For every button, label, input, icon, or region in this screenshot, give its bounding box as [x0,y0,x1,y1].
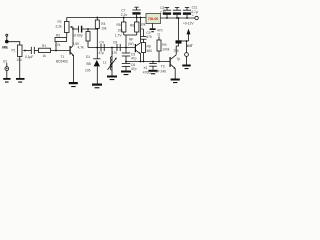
svg-text:10k: 10k [17,58,23,62]
ground [171,79,180,81]
wire P1 wiper arrow [24,50,31,52]
svg-text:2,2k: 2,2k [56,25,63,29]
svg-text:1k: 1k [140,27,144,31]
resistor R2 [55,38,67,42]
choke 10u [176,40,182,43]
svg-text:2,2n: 2,2n [121,13,128,17]
svg-text:10-60p: 10-60p [73,34,83,38]
capacitor C10 on W4 [152,61,154,63]
svg-text:L1: L1 [103,61,107,65]
wire P2 bottom to R2 [66,33,68,38]
capacitor C10b [176,17,178,19]
ground [3,78,10,80]
wire T2 emitter to W4 [140,53,142,61]
svg-text:G1: G1 [3,60,8,64]
svg-text:105: 105 [85,69,91,73]
svg-text:560: 560 [147,49,153,53]
node R3 top junction [87,28,89,30]
svg-text:100k: 100k [162,48,169,52]
wire choke to antenna [182,40,189,42]
capacitor C7 above rail [132,12,140,14]
svg-text:47p: 47p [131,57,137,61]
node G1 terminal [6,63,8,67]
resistor R6 [136,17,138,19]
svg-text:NF: NF [129,38,133,42]
svg-text:R5: R5 [117,23,121,27]
capacitor C9b after regulator [166,17,168,19]
transistor T1 [70,46,71,55]
transistor T2 [135,44,136,52]
resistor R3 4,7k [87,29,89,32]
svg-text:10k: 10k [101,27,107,31]
resistor R8 [142,43,146,53]
wire supply rail right [161,17,195,19]
node ME mic terminal [6,34,8,36]
svg-text:T1: T1 [61,55,65,59]
capacitor C11 [186,17,188,19]
ground [16,78,25,80]
svg-text:+: + [192,14,194,18]
svg-text:R2: R2 [56,34,60,38]
svg-text:47p: 47p [99,51,105,55]
wire T2 collector to rail [140,18,142,43]
capacitor C5 [122,52,130,54]
node base junction [55,50,57,52]
svg-text:C7: C7 [121,9,125,13]
wire T3 collector to choke [176,44,178,55]
capacitor C1 [30,47,32,54]
svg-text:R6: R6 [130,24,134,28]
node supply terminal [195,16,198,19]
svg-text:T3: T3 [161,65,165,69]
wire U1 ground pin [152,24,154,29]
svg-text:D1: D1 [86,55,90,59]
svg-text:ANT: ANT [186,44,193,48]
svg-text:C11: C11 [192,6,198,10]
antenna ANT [188,34,190,42]
wire 6V rail [67,17,146,19]
trimmer capacitor 10-60p [72,28,74,30]
potentiometer P1 [18,45,23,57]
varicap D1 [96,48,98,59]
svg-text:X1: X1 [144,66,148,70]
svg-text:ME: ME [2,46,8,50]
svg-text:0,1µF: 0,1µF [25,55,33,59]
svg-text:470Ω: 470Ω [143,71,151,75]
svg-text:R8: R8 [147,45,151,49]
svg-text:10µ: 10µ [173,49,179,53]
ground [121,71,131,73]
svg-text:1,7V: 1,7V [115,34,123,38]
svg-text:4,7k: 4,7k [78,46,85,50]
wire rail corner into P2 [66,18,68,22]
svg-text:C4: C4 [100,41,104,45]
svg-text:+9-12V: +9-12V [183,22,194,26]
svg-text:47p: 47p [131,67,137,71]
svg-text:R9: R9 [162,43,166,47]
svg-text:R4: R4 [101,22,105,26]
svg-text:1k: 1k [43,54,47,58]
resistor R5 [123,17,125,19]
svg-text:78L06: 78L06 [148,17,158,21]
svg-text:BB: BB [87,62,91,66]
ground [148,70,157,72]
ground [69,82,78,84]
resistor R1 [39,48,51,52]
svg-text:R1: R1 [42,44,46,48]
capacitor C8 [116,44,118,51]
svg-text:BF 246: BF 246 [156,70,167,74]
wire W4 [125,61,127,63]
svg-text:47k: 47k [55,43,61,47]
capacitor C4 [100,44,102,51]
inductor L1 [111,47,113,49]
svg-text:470: 470 [112,51,118,55]
resistor R4 [96,17,98,19]
wire R1 to T1 base [51,50,70,52]
potentiometer P2 [65,22,70,33]
svg-text:P1: P1 [12,49,16,53]
regulator U1 78L06 [146,14,161,24]
node 1,7V chain [125,47,127,49]
svg-text:C8: C8 [113,41,117,45]
svg-text:BC546C: BC546C [56,60,69,64]
capacitor C9 [143,29,145,36]
svg-text:(W): (W) [128,42,133,46]
svg-text:2,2n: 2,2n [160,10,167,14]
ground [150,28,156,30]
wire W3 coupling line [88,47,135,49]
node output terminal [186,41,188,53]
resistor R9 [158,37,160,41]
ground [107,76,117,78]
svg-text:10k: 10k [118,29,124,33]
wire wiper/collector vertical [72,27,74,46]
svg-text:7p: 7p [177,57,181,61]
svg-text:P2: P2 [58,20,62,24]
transistor T3 [170,57,171,67]
svg-text:10k: 10k [140,23,146,27]
wire T3 emitter to ground [174,68,176,78]
wire P2 wiper arrow [71,26,73,28]
capacitor C6 [122,62,130,64]
wire T1 emitter to ground [73,56,75,82]
svg-text:470: 470 [146,35,152,39]
ground [182,65,190,67]
wire P1 to ground [19,57,21,79]
ground [92,84,102,86]
wire mic to P1 [8,42,20,45]
